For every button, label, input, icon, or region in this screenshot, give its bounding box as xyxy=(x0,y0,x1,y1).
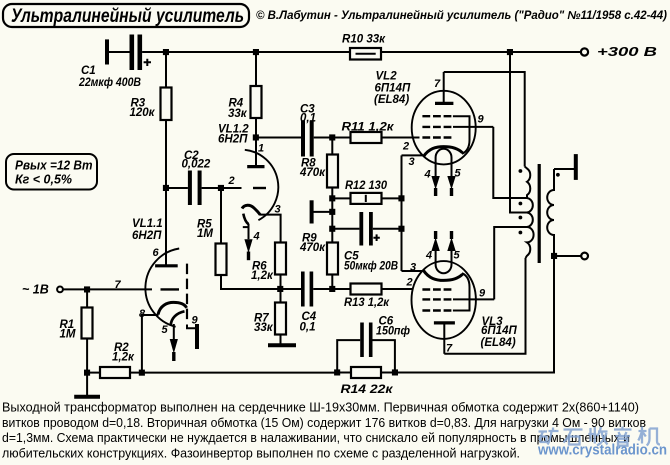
svg-text:R12 130: R12 130 xyxy=(345,180,388,192)
svg-text:© В.Лабутин - Ультралинейный у: © В.Лабутин - Ультралинейный усилитель (… xyxy=(256,10,667,22)
anode VL2 lead xyxy=(443,72,445,103)
wire R10 to +300V node xyxy=(381,51,581,53)
node junction R14 left xyxy=(334,369,340,375)
wire C2 node to VL1.2 grid xyxy=(221,187,242,189)
wire R1 bottom xyxy=(86,339,88,373)
wire feedback row xyxy=(142,372,337,374)
svg-text:2: 2 xyxy=(228,175,235,187)
svg-text:витков проводом d=0,18. Вторич: витков проводом d=0,18. Вторичная обмотк… xyxy=(2,415,646,430)
node junction R3/C2/VL1.1 anode xyxy=(163,185,169,191)
grid g3 VL2 dashes xyxy=(422,115,451,117)
heater VL1.1 arrow xyxy=(173,324,175,339)
node junction R2/VL1.1 cathode xyxy=(139,370,145,376)
tube VL2 xyxy=(374,71,493,196)
grid g3 VL2 link to cathode xyxy=(453,116,470,154)
node junction C2/R5/VL1.2 grid xyxy=(218,185,224,191)
envelope VL1.1 xyxy=(145,249,179,327)
svg-text:C1: C1 xyxy=(81,65,96,77)
grid g3 VL3 dashes xyxy=(422,309,451,311)
node junction ground/column xyxy=(329,209,335,215)
node junction R4 top xyxy=(253,49,259,55)
svg-text:120к: 120к xyxy=(130,107,156,119)
node junction C5/cathode riser xyxy=(398,226,404,232)
cathode VL1.2 xyxy=(242,205,260,215)
svg-text:Pвых =12 Вт: Pвых =12 Вт xyxy=(15,159,93,173)
svg-text:Выходной трансформатор выполне: Выходной трансформатор выполнен на серде… xyxy=(2,400,639,415)
resistor R3 xyxy=(130,52,172,120)
resistor R7 xyxy=(254,289,286,335)
wire VL2 cathode stub xyxy=(402,154,425,156)
terminal output xyxy=(581,253,588,260)
ground (bar at cathode network) xyxy=(310,200,314,223)
svg-text:R14 22к: R14 22к xyxy=(341,384,394,396)
anode VL3 lead xyxy=(443,323,445,354)
resistor R2 xyxy=(87,342,135,378)
wire R13 to VL3 grid xyxy=(382,288,413,290)
bottom description text xyxy=(2,400,646,461)
anode VL1.2 lead xyxy=(255,138,257,167)
svg-text:470к: 470к xyxy=(299,242,326,254)
transformer T1 primary xyxy=(525,167,534,259)
svg-text:4: 4 xyxy=(424,169,431,181)
wire R9 bottom to row xyxy=(331,275,333,290)
wire R6 bottom to node xyxy=(280,275,282,290)
resistor R11 xyxy=(335,122,395,144)
wire R12 right to cathode riser xyxy=(382,197,402,199)
svg-text:1М: 1М xyxy=(197,228,213,240)
heater VL1.2 hook xyxy=(243,214,248,225)
anode VL3 plate xyxy=(434,321,455,324)
svg-text:150пф: 150пф xyxy=(376,325,410,337)
transformer polarity dots primary xyxy=(519,169,523,173)
svg-text:5: 5 xyxy=(455,168,462,180)
anode VL1.1 lead xyxy=(165,188,167,266)
svg-text:33к: 33к xyxy=(254,322,274,334)
wire VL1.2 cathode to R6 xyxy=(260,215,281,243)
tube VL1.2 xyxy=(218,123,281,260)
node junction C1/R3 xyxy=(163,49,169,55)
pin 9 exit wire xyxy=(453,126,493,128)
svg-text:(EL84): (EL84) xyxy=(374,94,409,106)
grid g1 VL3 dashes xyxy=(422,288,451,290)
wire VL3 anode to transformer bottom xyxy=(444,258,525,354)
svg-text:9: 9 xyxy=(478,114,485,126)
grid VL1.1 dash xyxy=(161,288,180,290)
svg-text:1,2к: 1,2к xyxy=(112,352,135,364)
cathode VL1.1 xyxy=(158,302,187,314)
wire VL2 cathode riser xyxy=(401,155,403,271)
watermark crystalradio xyxy=(539,427,661,446)
svg-text:0,1: 0,1 xyxy=(300,112,316,124)
ground (chassis bar at C1 left) xyxy=(105,39,109,64)
cathode VL2 xyxy=(424,147,463,157)
svg-text:2: 2 xyxy=(402,141,409,153)
heater VL2 arch xyxy=(436,149,452,176)
svg-text:4: 4 xyxy=(253,231,260,243)
wire secondary to output terminal xyxy=(554,255,581,257)
svg-text:50мкф 20В: 50мкф 20В xyxy=(344,261,398,273)
ground (chassis bar, pin 9) xyxy=(195,324,199,349)
svg-text:5: 5 xyxy=(162,324,169,336)
node junction R5/R6/R7/C4 xyxy=(277,286,283,292)
heater VL1.2 arrow xyxy=(248,224,250,239)
shield VL1.1 (pin 9) xyxy=(186,264,188,322)
svg-text:0,022: 0,022 xyxy=(182,159,211,171)
wire VL3 screen riser to tap xyxy=(494,227,528,299)
resistor R1 xyxy=(60,289,93,340)
title box xyxy=(3,4,249,27)
node junction R9/C4/R13 xyxy=(329,286,335,292)
wire C1 to node B+ xyxy=(142,51,166,53)
node junction secondary bottom xyxy=(551,253,557,259)
tube VL3 xyxy=(406,231,518,355)
node junction +300V rail/transformer xyxy=(507,49,513,55)
svg-text:6Н2П: 6Н2П xyxy=(218,133,248,145)
resistor R14 xyxy=(341,367,394,396)
node junction R14 right xyxy=(392,369,398,375)
wire feedback from secondary xyxy=(395,256,554,373)
anode VL2 plate xyxy=(435,102,453,105)
transformer T1 secondary xyxy=(547,169,554,256)
heater VL3 arch xyxy=(436,251,452,273)
wire cathode VL1.1 riser xyxy=(142,315,159,373)
svg-text:6П14П: 6П14П xyxy=(375,83,411,95)
wire to ground xyxy=(86,373,88,395)
envelope VL1.2 xyxy=(245,150,279,220)
svg-text:0,1: 0,1 xyxy=(300,322,316,334)
wire column R12 node to C5 node xyxy=(331,198,333,228)
wire R3 bottom to C2 node xyxy=(165,120,167,188)
wire input to grid VL1.1 xyxy=(63,288,152,290)
wire VL2 anode to transformer top xyxy=(444,72,525,167)
svg-text:VL2: VL2 xyxy=(376,71,398,83)
resistor R13 xyxy=(335,284,390,310)
wire top rail to R10 xyxy=(256,51,350,53)
svg-text:3: 3 xyxy=(409,156,415,168)
node junction R4/C3/VL1.2 anode xyxy=(253,134,259,140)
svg-text:(EL84): (EL84) xyxy=(481,337,516,349)
wire VL2 screen riser to tap xyxy=(493,127,528,198)
transformer core xyxy=(538,164,541,263)
svg-text:1,2к: 1,2к xyxy=(251,270,274,282)
node junction C3/R11/R8 xyxy=(329,134,335,140)
wire +300V riser to centre tap xyxy=(510,52,528,213)
wire ground bar to column xyxy=(312,211,333,213)
wire C1 left lead xyxy=(107,51,130,53)
svg-text:3: 3 xyxy=(410,262,416,274)
svg-text:www.crystalradio.cn: www.crystalradio.cn xyxy=(537,443,667,459)
heater VL3 arrows xyxy=(431,238,439,252)
grid g2 VL3 dashes xyxy=(422,298,451,300)
svg-text:6Н2П: 6Н2П xyxy=(132,230,162,242)
capacitor C6 xyxy=(337,316,410,373)
svg-text:R10 33к: R10 33к xyxy=(342,33,386,45)
resistor R4 xyxy=(228,52,262,120)
svg-text:5: 5 xyxy=(454,250,461,262)
pin 9 exit wire xyxy=(453,298,494,300)
svg-text:+300 В: +300 В xyxy=(597,45,657,59)
node junction R12/cathode riser xyxy=(398,195,404,201)
resistor R10 xyxy=(342,33,386,59)
grid VL1.2 dash xyxy=(253,187,266,189)
grid g3 VL3 link to cathode xyxy=(453,273,470,310)
svg-text:2: 2 xyxy=(406,277,413,289)
svg-text:Ультралинейный усилитель: Ультралинейный усилитель xyxy=(11,5,244,27)
wire R11 to VL2 grid xyxy=(382,137,420,139)
svg-text:33к: 33к xyxy=(228,108,248,120)
node junction R8/R12 xyxy=(329,195,335,201)
node junction R1/R2/ground xyxy=(84,370,90,376)
wire R5 bottom to cathode node xyxy=(221,275,280,289)
svg-text:6: 6 xyxy=(153,247,160,259)
capacitor C4 xyxy=(280,272,332,334)
svg-text:любительских конструкциях. Ф: любительских конструкциях. Фазоинвертор … xyxy=(2,445,520,460)
wire R14 right lead xyxy=(381,372,395,374)
svg-text:1М: 1М xyxy=(60,329,76,341)
svg-text:22мкф 400В: 22мкф 400В xyxy=(78,77,141,89)
svg-text:6П14П: 6П14П xyxy=(481,325,517,337)
wire R2 right to node xyxy=(130,372,142,374)
ground (bar at secondary top) xyxy=(574,154,578,180)
svg-text:1: 1 xyxy=(258,143,264,155)
anode VL1.1 plate xyxy=(155,264,178,267)
wire R4 bottom to node xyxy=(255,118,257,138)
transformer polarity dot secondary xyxy=(556,173,560,177)
resistor R6 xyxy=(251,243,286,283)
svg-text:4: 4 xyxy=(425,250,432,262)
ground (bar under R7) xyxy=(268,343,296,347)
svg-text:d=1,3мм. Схема практически не: d=1,3мм. Схема практически не нуждается … xyxy=(2,430,630,445)
resistor R12 xyxy=(332,180,387,204)
envelope VL2 xyxy=(412,91,476,165)
ground (bar under R1) xyxy=(74,395,100,399)
wire R8 bottom to R12 node xyxy=(331,188,333,199)
svg-text:R11 1,2к: R11 1,2к xyxy=(342,122,395,134)
capacitor C2 xyxy=(166,150,221,205)
svg-text:Кг < 0,5%: Кг < 0,5% xyxy=(15,173,72,187)
spec box xyxy=(6,154,97,190)
resistor R8 xyxy=(299,138,338,188)
svg-text:470к: 470к xyxy=(299,167,326,179)
capacitor C1 xyxy=(78,35,151,90)
capacitor C3 xyxy=(256,104,332,157)
terminal input xyxy=(57,287,63,293)
envelope VL3 xyxy=(412,261,476,339)
wire top rail to R4 node xyxy=(166,51,256,53)
grid g1 VL2 dashes xyxy=(422,136,451,138)
node junction C5/column xyxy=(329,226,335,232)
svg-text:R13 1,2к: R13 1,2к xyxy=(344,297,390,309)
wire R7 to ground xyxy=(280,335,282,344)
svg-text:VL1.1: VL1.1 xyxy=(132,218,163,230)
wire R14 left to node xyxy=(337,372,351,374)
svg-text:~ 1В: ~ 1В xyxy=(22,283,49,297)
node junction input/R1 xyxy=(84,286,90,292)
wire VL3 cathode stub xyxy=(402,270,425,272)
tube VL1.1 xyxy=(115,188,199,361)
cathode VL3 xyxy=(424,271,463,281)
wire secondary top to ground xyxy=(554,168,574,170)
svg-text:7: 7 xyxy=(434,78,441,90)
anode VL1.2 plate xyxy=(247,165,264,168)
grid g2 VL2 dashes xyxy=(422,126,451,128)
resistor R5 xyxy=(197,188,227,275)
svg-text:7: 7 xyxy=(446,343,453,355)
capacitor C5 xyxy=(332,212,401,273)
heater VL2 arrows xyxy=(431,176,439,190)
resistor R9 xyxy=(299,229,338,275)
svg-text:9: 9 xyxy=(479,288,486,300)
shield ground lead xyxy=(187,325,195,329)
heater VL1.1 hook xyxy=(171,311,185,325)
terminal +300V xyxy=(581,48,588,55)
